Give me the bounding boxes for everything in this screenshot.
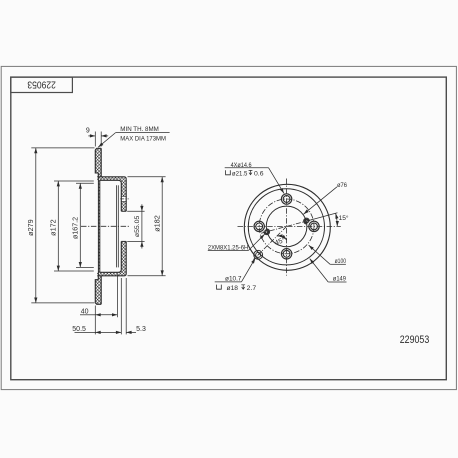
mounting flange hatched section (bottom piece) (121, 241, 126, 271)
vertical centerline (286, 179, 288, 276)
label Phi100 with leader (330, 263, 346, 265)
dimension 5.3 (125, 278, 127, 334)
svg-text:ø279: ø279 (28, 219, 35, 236)
svg-text:229053: 229053 (400, 334, 430, 346)
svg-text:2.7: 2.7 (247, 285, 257, 292)
M8 threaded hole 2 (265, 230, 269, 234)
M8 circle Phi76 (266, 206, 307, 247)
dimension 50.5 (120, 278, 122, 334)
center hole Phi55.05 edges (121, 210, 126, 212)
title box top-left (11, 77, 73, 92)
disc web / bowl floor lines (97, 177, 99, 276)
dimension 40 (94, 306, 96, 335)
small hole Phi10.7 / cbore Phi18 at 225 deg (254, 250, 263, 259)
svg-text:ø21.5: ø21.5 (232, 170, 248, 177)
M8 threaded hole 1 (305, 219, 309, 223)
bolt circle Phi100 (dash-dot) (259, 199, 314, 254)
inner edge circle (248, 189, 324, 265)
svg-text:ø149: ø149 (333, 276, 346, 283)
hat top wall hatched section (97, 177, 126, 183)
dimension Phi182 (128, 176, 166, 178)
label Phi76 with leader (304, 187, 338, 214)
svg-text:MAX DIA 173MM: MAX DIA 173MM (120, 136, 166, 143)
hat top wall outline (97, 177, 126, 183)
disc friction ring hatched section (95, 148, 101, 304)
svg-text:5.3: 5.3 (136, 326, 146, 333)
outer flange circle Phi149 (244, 184, 330, 270)
svg-text:ø10.7: ø10.7 (225, 275, 242, 282)
friction ring outline (95, 148, 101, 177)
svg-text:ø182: ø182 (154, 215, 161, 232)
svg-text:15°: 15° (339, 214, 349, 222)
bolt hole white gap in flange (121, 196, 127, 201)
inner border frame (11, 77, 447, 380)
lug bolt hole 1 (Phi14.6 / cbore Phi21.5) (281, 194, 291, 204)
hat bottom wall outline (97, 270, 126, 276)
dimension Phi279 (31, 147, 94, 149)
section centerline (81, 225, 130, 227)
svg-text:ø18: ø18 (227, 285, 239, 292)
svg-text:50.5: 50.5 (72, 326, 86, 333)
dimension 9 (disc thickness) (94, 132, 96, 147)
label Phi149 with leader (328, 281, 346, 283)
leader MIN TH. 8MM / MAX DIA 173MM (98, 133, 115, 148)
hat bottom wall hatched section (97, 270, 126, 276)
svg-text:ø172: ø172 (51, 219, 58, 236)
dimension Phi55.05 (127, 210, 144, 212)
svg-text:40: 40 (81, 308, 89, 315)
dimension Phi172 (54, 180, 94, 182)
horizontal centerline (238, 225, 341, 227)
svg-text:ø55.05: ø55.05 (134, 215, 141, 237)
svg-text:229053: 229053 (27, 78, 56, 89)
svg-text:MIN TH. 8MM: MIN TH. 8MM (120, 126, 159, 133)
svg-text:ø76: ø76 (337, 182, 347, 189)
bolt hole centerline in flange (120, 198, 129, 200)
lug bolt hole 4 (Phi14.6 / cbore Phi21.5) (254, 221, 264, 231)
lug bolt hole 2 (Phi14.6 / cbore Phi21.5) (309, 221, 319, 231)
15 deg diagonal centerline through M8 holes (261, 220, 312, 234)
45 deg angle dimension (277, 236, 286, 240)
15 deg angle dimension (309, 213, 338, 221)
svg-text:ø100: ø100 (335, 258, 347, 265)
svg-text:0.6: 0.6 (254, 170, 264, 177)
flange faces (121, 179, 126, 273)
flange inner boss lines (Phi149) (116, 185, 118, 267)
lug bolt hole 3 (Phi14.6 / cbore Phi21.5) (281, 249, 291, 259)
outer border frame (1, 66, 456, 389)
225 deg diagonal centerline to small hole (253, 226, 286, 259)
mounting flange hatched section (top piece) (121, 181, 126, 211)
svg-text:9: 9 (86, 128, 90, 135)
svg-text:ø167.2: ø167.2 (73, 217, 80, 239)
dimension Phi167.2 (76, 182, 94, 184)
bolt hole edges in flange (121, 195, 127, 197)
